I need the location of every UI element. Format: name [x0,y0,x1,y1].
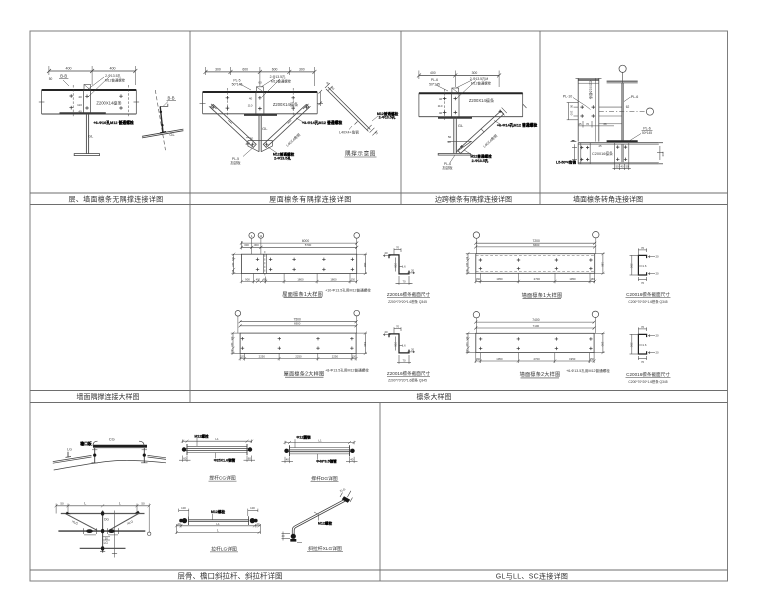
svg-text:2-Φ13.5孔M: 2-Φ13.5孔M [470,76,489,81]
svg-text:1.6: 1.6 [402,344,406,348]
plan top dim line [56,505,149,507]
divider panel2/3 [400,31,402,205]
leader lines annotations [87,77,104,90]
right hook [139,441,144,446]
axis bubble 1 [249,233,255,239]
top dims over ends [179,509,189,511]
leaders p3 [456,80,472,88]
svg-text:50*145: 50*145 [429,82,440,86]
svg-text:70: 70 [641,246,645,250]
leader M12 diag [318,515,320,521]
svg-text:1.6: 1.6 [643,343,647,347]
left dim d2 [232,333,234,353]
bottom girt band p4 [578,141,659,164]
svg-text:1800: 1800 [330,277,337,281]
row2 title strip top line [30,390,728,392]
svg-text:C200*70*20*1.6檩条 Q345: C200*70*20*1.6檩条 Q345 [628,299,667,304]
svg-text:撑杆DG详图: 撑杆DG详图 [311,475,338,482]
svg-text:150: 150 [240,356,245,359]
svg-text:M12普通螺栓: M12普通螺栓 [471,81,492,86]
I-column below panel2 [246,114,272,152]
C2 caption underline [626,377,671,379]
svg-text:隅撑示意图: 隅撑示意图 [345,149,376,157]
svg-text:50: 50 [250,136,254,140]
svg-text:PL-10: PL-10 [563,95,573,99]
svg-text:50: 50 [49,77,53,81]
end fittings dark [182,447,186,451]
svg-text:2250: 2250 [295,355,302,359]
axis drop lines d1 [251,238,253,254]
svg-text:屋面檩条2大样图: 屋面檩条2大样图 [284,370,325,378]
band edge mid ticks p1 [39,101,139,103]
leader PL-10 [573,98,591,110]
mini view labels [168,96,176,138]
bottom fitting dark [291,534,296,539]
svg-text:40: 40 [249,97,253,101]
svg-text:100: 100 [181,506,186,510]
svg-text:5700: 5700 [305,243,312,247]
divider bottom row [379,403,381,582]
plan labels [60,501,145,545]
dim ticks d1 [240,242,358,249]
bottom dims p4 [572,144,663,170]
single brace p3 [458,108,507,154]
svg-text:+3-Φ14孔M12 普通螺栓: +3-Φ14孔M12 普通螺栓 [302,120,343,125]
axis drop lines d2 [237,316,239,333]
rafter flange double line [142,129,183,136]
svg-text:M12普通螺栓: M12普通螺栓 [470,154,492,159]
divider panel3/4 [539,31,541,205]
svg-text:70: 70 [641,325,645,329]
svg-text:300: 300 [299,67,305,71]
strut2 bottom dim ticks [282,461,294,463]
small dim near center [103,536,110,538]
Z1 left arrow dim [384,255,391,257]
svg-text:Φ12圆钢: Φ12圆钢 [296,435,311,440]
panel titles row1 [69,195,643,581]
leaders p2 [261,78,275,87]
brace end bolt p3 [460,110,502,149]
bolts drawing3 [479,258,593,270]
svg-text:C20016檩条截面尺寸: C20016檩条截面尺寸 [626,371,670,378]
svg-text:层骨、檐口斜拉杆、斜拉杆详图: 层骨、檐口斜拉杆、斜拉杆详图 [178,571,283,581]
right diagonal tie [109,513,140,530]
title underline d4 [521,377,560,379]
bottom dim ticks strut1 [179,459,191,461]
bottom dim d1 [241,280,356,282]
svg-text:20: 20 [384,330,388,334]
ridge labels [67,437,115,452]
post bolts [93,454,96,457]
wall girt vertical band right edge [598,78,600,141]
svg-text:70: 70 [396,246,400,250]
brace top end plate [499,108,506,116]
right dim d3 [602,254,604,274]
svg-text:L1: L1 [318,439,322,443]
strut2 rod pair [286,449,354,451]
svg-text:Z200X14檩条: Z200X14檩条 [273,101,299,108]
svg-text:40: 40 [620,164,624,168]
bottom end ticks [367,125,377,135]
girt side bar [160,106,163,132]
svg-text:檐口板: 檐口板 [80,441,92,446]
svg-text:50: 50 [615,164,619,168]
C1 bottom dim [638,279,646,281]
svg-text:M12螺栓: M12螺栓 [318,520,333,525]
right dim tick [659,146,661,160]
strut2 tube outer lines [290,447,350,449]
post top ticks [92,449,147,451]
svg-text:40: 40 [350,458,354,462]
right dim d4 [602,333,604,352]
diagonal arrowheads [66,512,71,515]
strut2 end plates [289,445,291,456]
girt top cap dark lines [578,79,599,81]
leader pipe label strut1 [214,453,216,459]
splice axis dashed lines [72,85,74,117]
leader bottom note p3 [464,150,474,156]
svg-text:60: 60 [248,456,252,460]
main rect d2 [240,333,356,353]
main rect d3 [476,254,595,274]
strut2 end fittings [284,449,288,453]
svg-text:900: 900 [245,277,250,281]
svg-text:50: 50 [448,135,452,139]
left dim bottom band [574,144,576,162]
svg-text:Z200*70*20*1.6檩条 Q345: Z200*70*20*1.6檩条 Q345 [388,299,427,304]
column bottom flange [74,154,99,156]
svg-text:Z200*70*20*1.6檩条 Q345: Z200*70*20*1.6檩条 Q345 [388,378,427,383]
strut2 leader M12 [294,439,296,447]
divider panel1/2 [189,31,191,403]
diag labels [282,487,347,538]
svg-text:20: 20 [655,255,659,259]
title underline d2 [285,376,324,378]
svg-text:M12螺栓: M12螺栓 [194,433,209,438]
svg-text:6900: 6900 [294,322,301,326]
left connection box [589,143,591,164]
title underline d1 [284,297,323,299]
svg-text:40: 40 [447,140,451,144]
column top flange plan [607,80,638,82]
column web p3 [453,117,455,154]
bolts panel3 [443,97,457,115]
top dim line strut1 [183,440,252,442]
top end ticks [325,83,333,91]
svg-text:2-Φ13.5孔: 2-Φ13.5孔 [270,74,286,79]
svg-text:L1: L1 [216,522,220,526]
leader from brace note [296,118,304,123]
svg-text:300: 300 [244,243,249,247]
band bottom edge [578,163,659,165]
row1 title strip top line [30,192,728,194]
svg-text:110: 110 [248,104,253,108]
mini title underline [345,156,377,158]
column web p2 [258,114,260,152]
axis bubble 11 [258,233,264,239]
leader PL-6 mid [630,134,641,141]
C section shape 1 [638,255,646,275]
svg-text:墙面檩条转角连接详图: 墙面檩条转角连接详图 [573,195,643,204]
band left edge [577,143,579,164]
svg-text:M12普通螺栓: M12普通螺栓 [271,79,292,84]
strut2 labels [286,435,354,464]
drawing1 texts [231,234,371,298]
svg-text:40: 40 [439,111,443,115]
svg-text:1950: 1950 [569,357,576,361]
right brace end plate [303,104,311,111]
bolts drawing2 [241,337,354,350]
roof lower long line [54,460,166,470]
bottom dim d4 [476,360,594,362]
band top edge [578,142,659,144]
post feet [92,462,148,464]
svg-text:L1: L1 [215,437,219,441]
svg-text:110: 110 [465,342,469,347]
svg-text:60: 60 [183,456,187,460]
svg-text:50: 50 [570,105,574,109]
bottom purlin line plan [80,547,126,549]
svg-text:屋面檩条1大样图: 屋面檩条1大样图 [282,290,323,298]
column web [85,114,87,154]
brace end bolts p2 [211,106,308,146]
svg-text:150: 150 [590,278,595,281]
dashed centerline p4 [599,111,646,113]
dim tier2 d4 [476,327,594,329]
svg-text:150: 150 [590,358,595,361]
svg-text:C20016檩条: C20016檩条 [592,151,613,156]
row2 title strip bottom line [30,402,728,404]
top hook [160,104,168,107]
leader to bottom note [268,147,277,153]
svg-text:300: 300 [472,71,478,75]
left dim d1 [233,254,235,273]
svg-text:70: 70 [396,325,400,329]
svg-text:50: 50 [105,536,109,540]
dim tier1 d4 [476,321,594,323]
svg-text:2-Φ13.5孔: 2-Φ13.5孔 [274,156,291,161]
axis bubble left d4 [473,312,479,318]
svg-text:6600: 6600 [533,243,540,247]
bolts p4 upper [580,105,595,117]
svg-text:450: 450 [256,278,261,281]
svg-text:150: 150 [476,278,481,281]
column web vertical [621,83,623,140]
dimension line top [49,70,135,72]
dim tier2 d1 [241,246,356,248]
svg-text:40: 40 [286,458,290,462]
svg-text:69: 69 [603,122,607,126]
svg-text:110: 110 [231,262,235,267]
dimension line top p2 [205,71,314,73]
Z1 web dim [395,258,397,272]
rod end plates [188,516,190,525]
strut tube outer lines [187,445,247,447]
svg-text:GL与LL、SC连接详图: GL与LL、SC连接详图 [496,572,568,581]
rod labels [178,506,260,532]
left dim ticks p4 [567,103,614,128]
svg-text:190: 190 [363,262,367,267]
svg-text:Z20016檩条截面尺寸: Z20016檩条截面尺寸 [387,291,431,298]
inclined angle strip [328,87,370,129]
svg-text:檩条大样图: 檩条大样图 [417,392,452,401]
upper purlin line plan [61,513,145,515]
drawing2 texts [230,318,369,378]
svg-text:C200*70*20*1.6檩条 Q345: C200*70*20*1.6檩条 Q345 [628,379,667,384]
svg-text:墙面檩条2大样图: 墙面檩条2大样图 [520,370,561,378]
axis bubble right d1 [354,233,360,239]
splice lines d1 [262,254,264,273]
strut1 title underline [209,480,237,482]
Z1 right arrow dim [408,272,415,274]
stiffener p3 [451,93,453,117]
left dim d3 [467,254,469,274]
svg-text:60: 60 [258,81,262,85]
bolts panel2 [226,96,295,110]
svg-text:M12普通螺栓: M12普通螺栓 [273,151,295,156]
Z section shape 2 [389,334,409,353]
bolt cap above band p3 [452,88,459,93]
leader PL-6 bottom p3 [450,155,455,163]
svg-text:GL: GL [262,126,268,131]
row1 title strip bottom line [30,204,728,206]
svg-text:200: 200 [629,342,633,347]
drawing4 texts [465,318,610,378]
svg-text:25: 25 [578,122,582,126]
purlin band beam p3 [419,92,523,94]
roof upper line right [148,455,167,457]
svg-text:CG: CG [109,437,115,442]
axis bubble left d3 [473,232,479,238]
svg-text:拉杆LG详图: 拉杆LG详图 [211,545,237,552]
panel3 texts [429,71,537,170]
svg-text:20: 20 [411,269,415,273]
svg-text:C20016檩条截面尺寸: C20016檩条截面尺寸 [626,291,670,298]
svg-text:200: 200 [661,152,665,157]
mini scheme labels [325,81,398,136]
bottom dim d2 [240,358,356,360]
small left member LG [67,452,69,458]
svg-text:1.6: 1.6 [402,265,406,269]
svg-text:100: 100 [250,506,255,510]
diagonal rod double line [292,498,346,535]
svg-text:LG: LG [67,448,72,452]
Z1 bottom dim [397,282,411,284]
bottom dim d3 [476,280,595,282]
seat plate thick segment [60,112,106,114]
center vertical strut [102,511,104,553]
strut1 labels [183,433,251,462]
svg-text:B-B: B-B [168,96,175,101]
dim tier2 d3 [476,246,595,248]
bottom dim marks [282,533,291,535]
seat plate dark p3 [438,117,472,119]
svg-text:加劲板: 加劲板 [442,165,453,170]
panel1 side mini view [142,90,183,150]
svg-text:50: 50 [625,164,629,168]
svg-text:L: L [217,529,219,533]
svg-text:600: 600 [272,67,278,71]
svg-text:110: 110 [438,104,443,108]
svg-text:110: 110 [230,342,234,347]
svg-text:DG: DG [104,518,109,522]
rod end fittings dark [182,518,187,523]
svg-text:70: 70 [586,122,590,126]
svg-text:PL-6: PL-6 [631,95,639,99]
axis bubble right d4 [592,311,598,317]
dim tier1 d2 [240,321,356,323]
B-B underline [59,78,68,80]
column web through band [621,144,623,162]
left corner brace (angle) [209,104,256,147]
panel2 texts [215,67,342,165]
left arrow at band corner [570,140,577,142]
axis bubble right d3 [593,232,599,238]
svg-text:2250: 2250 [259,355,266,359]
svg-text:190: 190 [601,262,605,267]
svg-text:50: 50 [60,502,64,506]
svg-text:70: 70 [641,281,645,285]
left diagonal tie [66,514,98,531]
top fitting dark [342,496,350,503]
svg-text:Φ48*3.5钢管: Φ48*3.5钢管 [316,459,337,464]
right end circle plan [148,532,151,535]
diag title underline [307,551,343,553]
right corner brace (angle) [263,104,310,147]
bottom ticks plan [100,537,117,558]
svg-text:150: 150 [352,356,357,359]
right edge dim ticks p2 [200,90,324,106]
svg-text:2700: 2700 [533,357,540,361]
svg-text:B-B: B-B [60,74,67,79]
bolt head cap above band [84,85,91,91]
dim line L [177,531,261,533]
svg-text:110: 110 [465,263,469,268]
dim tier1 d3 [476,242,595,244]
svg-text:600: 600 [242,67,248,71]
I-column below panel3 [438,117,471,155]
svg-text:墙面隅撑连接大样图: 墙面隅撑连接大样图 [77,392,140,401]
right dim d1 [364,254,366,273]
dimension line top p3 [419,74,499,76]
svg-text:Z200X14檩条: Z200X14檩条 [469,97,495,104]
svg-text:200: 200 [393,263,397,268]
svg-text:层、墙面檩条无隅撑连接详图: 层、墙面檩条无隅撑连接详图 [69,195,164,204]
svg-text:300: 300 [254,243,259,247]
Z1 dim texts [384,246,414,284]
main rect d4 [476,333,594,352]
svg-text:20: 20 [655,351,659,355]
svg-text:50*145: 50*145 [642,131,652,135]
B-B mini underline [167,100,177,102]
main rect d1 [241,254,356,273]
svg-text:400: 400 [66,67,72,71]
center stiffener p2 [255,92,257,114]
left post [94,448,96,463]
Z2 caption underline [387,376,430,378]
leader from mid to label [349,126,352,130]
svg-text:400: 400 [110,67,116,71]
left dim d4 [467,333,469,352]
C section shape 2 [638,334,646,354]
svg-text:L5-50*4角钢: L5-50*4角钢 [556,160,576,165]
PL-6 50x145 underline [642,130,653,132]
rod double line [188,519,249,521]
svg-text:墙面檩条1大样图: 墙面檩条1大样图 [522,291,563,299]
svg-text:2-Φ13.5孔: 2-Φ13.5孔 [472,158,489,163]
grid bubble top [619,65,626,72]
svg-text:1.6: 1.6 [643,264,647,268]
